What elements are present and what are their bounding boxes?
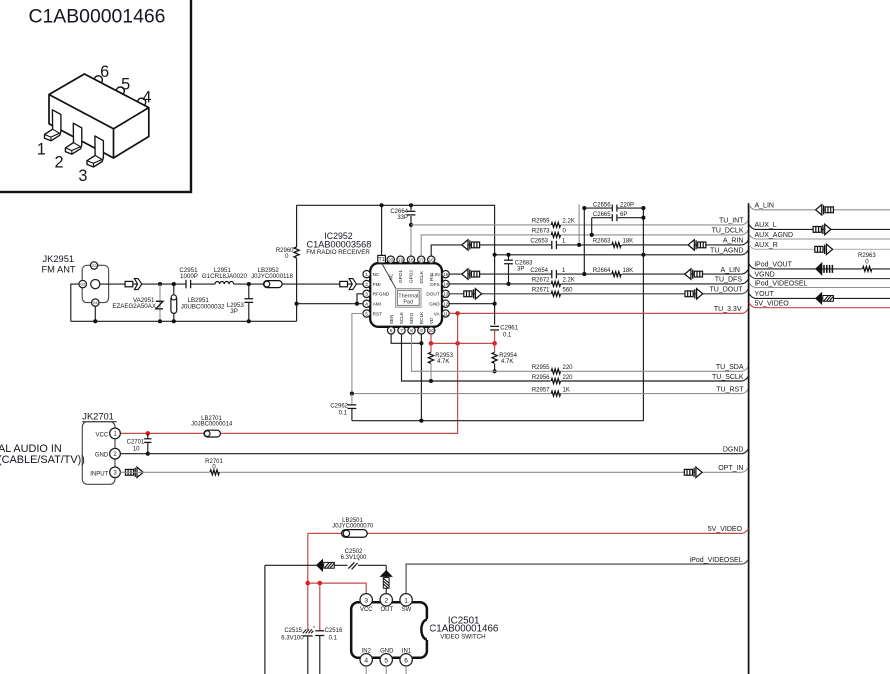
flag on INPUT of JK2701 [125, 467, 143, 477]
svg-text:JK2701: JK2701 [82, 412, 114, 422]
wire pin 4 stub [365, 666, 367, 674]
flag on TU_DOUT row (right) [685, 289, 703, 299]
svg-text:Thermal: Thermal [398, 294, 418, 300]
node C2665 bottom junction on TU_DCLK row [590, 233, 594, 237]
svg-text:R2959: R2959 [532, 219, 550, 225]
node RCLK junction on AGND row [419, 419, 423, 423]
svg-text:GND: GND [380, 648, 394, 654]
flag on A_RIN row (left) [462, 240, 480, 250]
wire C2656 left vertical to A_LIN row [583, 208, 585, 274]
wire pin 8 SDIO / TU_SDA row [412, 334, 742, 371]
node pin12 junction [493, 302, 497, 306]
svg-text:TU_RST: TU_RST [716, 386, 744, 393]
node LB2951 top junction [172, 282, 176, 286]
wire pin 14 / TU_DFS row [449, 283, 742, 285]
svg-text:SCLK: SCLK [399, 311, 404, 324]
svg-text:5: 5 [384, 657, 388, 664]
wire T1 to thermal pad [382, 263, 397, 290]
svg-text:19: 19 [398, 257, 404, 262]
wire AUX_R row [749, 244, 890, 249]
wire 5V_VIDEO left row (red) [308, 532, 742, 534]
pin G1 [92, 299, 99, 306]
node gray stub junction on A_RIN row [577, 243, 581, 247]
flag on C2502 row [317, 560, 335, 571]
svg-text:(CABLE/SAT/TV)): (CABLE/SAT/TV)) [0, 454, 85, 466]
wire pin 10 VD stem (red) [430, 334, 432, 343]
ferrite bead LB2952 [264, 281, 283, 288]
svg-text:OPT_IN: OPT_IN [718, 465, 743, 472]
svg-text:5V_VIDEO: 5V_VIDEO [755, 301, 790, 308]
wire A_LIN right row [749, 205, 890, 210]
svg-text:9: 9 [420, 328, 423, 333]
svg-text:TU_DFS: TU_DFS [715, 277, 743, 284]
svg-text:A_LIN: A_LIN [721, 267, 740, 274]
wire pin 9 RCLK vertical [420, 334, 422, 421]
wire SW pin / iPod_VIDEOSEL left row [406, 564, 742, 594]
flag on A_LIN row (left) [462, 269, 480, 279]
node C2701 bottom junction on GND row [146, 452, 150, 456]
svg-text:OUT: OUT [380, 607, 393, 613]
pin 4 of IC2501 [360, 654, 372, 666]
capacitor C2664 [407, 205, 416, 225]
svg-text:18: 18 [408, 257, 414, 262]
pin 4 [363, 300, 370, 307]
svg-text:220: 220 [563, 365, 574, 371]
pin 19 [397, 256, 404, 263]
svg-text:2: 2 [384, 597, 388, 604]
svg-text:VCC: VCC [96, 432, 109, 438]
wire red VCC rail to IC2501 [308, 583, 366, 594]
pin 2 of JK2701 [110, 448, 121, 459]
pin 6 of IC2501 [400, 654, 412, 666]
node L2953 top junction [247, 282, 251, 286]
pin 1 of JK2701 [110, 428, 121, 439]
svg-text:2: 2 [365, 282, 368, 287]
wire pin 6 stub [405, 666, 407, 674]
svg-text:AUX_L: AUX_L [755, 222, 777, 229]
svg-text:A_LIN: A_LIN [755, 203, 774, 210]
svg-text:0.1: 0.1 [503, 333, 512, 339]
svg-text:5V_VIDEO: 5V_VIDEO [708, 526, 743, 533]
pin G3 [90, 262, 97, 269]
flag on iPod_VOUT row [816, 263, 833, 275]
svg-text:R2963: R2963 [858, 253, 876, 259]
svg-text:RST: RST [373, 311, 383, 316]
resistor R2954 [492, 343, 497, 371]
flag on A_LIN right row [816, 205, 834, 215]
wire DGND row [120, 453, 742, 455]
svg-text:G1CR18JA0020: G1CR18JA0020 [202, 273, 248, 280]
wire gray stub vertical to A_RIN row [578, 204, 580, 245]
svg-text:G2: G2 [80, 282, 85, 287]
capacitor C2653 [552, 241, 557, 249]
node red rail right junction [492, 341, 497, 346]
svg-text:R2671: R2671 [532, 288, 550, 294]
svg-text:1K: 1K [563, 387, 570, 393]
signal direction marker on antenna line [125, 279, 142, 290]
flag on AUX_R row [815, 244, 833, 254]
pin 3 of JK2701 [110, 467, 121, 478]
node red rail mid junction [455, 341, 460, 346]
svg-text:AUX_R: AUX_R [755, 242, 778, 249]
node red rail left junction [429, 341, 434, 346]
svg-text:5: 5 [121, 76, 130, 94]
svg-text:0.1: 0.1 [339, 410, 348, 416]
svg-text:6: 6 [404, 657, 408, 664]
varistor VA2951 [156, 284, 163, 321]
svg-text:560: 560 [563, 288, 574, 294]
svg-text:G3: G3 [91, 263, 96, 268]
node TU_RST start junction [350, 392, 354, 396]
svg-text:17: 17 [419, 257, 425, 262]
svg-text:7: 7 [400, 328, 403, 333]
node red junction C2516 [318, 581, 323, 586]
svg-text:TU_AGND: TU_AGND [710, 248, 743, 255]
svg-text:C2653: C2653 [530, 239, 548, 245]
package pin 5 bump [116, 87, 124, 95]
node R2953 bottom junction on TU_SCLK [429, 379, 433, 383]
wire pin 18 stem [410, 225, 412, 256]
pin 17 [418, 256, 425, 263]
node RFGND/AMI junction [355, 302, 359, 306]
flag on OPT_IN row (right) [684, 467, 702, 477]
svg-text:4.7K: 4.7K [437, 359, 449, 365]
node C2656 left junction [582, 206, 586, 210]
node pin 11 junction (red) [455, 311, 460, 316]
svg-text:SW: SW [402, 607, 412, 613]
signal direction marker before pin FMI [340, 279, 357, 290]
svg-text:SDIO: SDIO [409, 312, 414, 324]
wire FM antenna signal line [100, 283, 363, 285]
svg-text:J0JBC0000014: J0JBC0000014 [191, 422, 233, 428]
svg-text:FMI: FMI [373, 282, 381, 287]
svg-text:2: 2 [54, 153, 63, 171]
node SEN/RCLK junction [419, 341, 423, 345]
wire T1 pad stem to top rail [381, 205, 383, 255]
wire C2502 row [265, 565, 386, 674]
svg-text:8: 8 [410, 328, 413, 333]
wire G1 stem [94, 306, 96, 321]
svg-text:6: 6 [390, 328, 393, 333]
svg-text:10: 10 [133, 446, 140, 452]
wire red rail 3.3V [431, 342, 495, 344]
flag on AUX_L row [813, 224, 831, 234]
svg-text:J0JYC0000070: J0JYC0000070 [332, 524, 374, 530]
pin 1 of IC2501 [400, 594, 412, 606]
wire iPod_VOUT row [749, 264, 890, 269]
svg-text:13: 13 [443, 292, 449, 297]
switch IC2501 body [351, 602, 427, 658]
resistor R2701 [209, 468, 219, 476]
resistor R2959 [551, 221, 561, 229]
capacitor C2516 [315, 631, 324, 674]
wire OPT_IN row [120, 471, 742, 473]
svg-text:R2955: R2955 [532, 365, 550, 371]
bus line (vertical page bus) [748, 203, 750, 674]
svg-text:2.2K: 2.2K [563, 278, 575, 284]
pin 9 [418, 327, 425, 334]
capacitor C2656 [584, 205, 643, 212]
node LB2951 bottom junction [172, 319, 176, 323]
pin 14 [442, 280, 449, 287]
resistor R2672 [551, 280, 561, 288]
capacitor C2502 (polarized, diagonal) [348, 559, 360, 570]
svg-text:18K: 18K [623, 239, 634, 245]
svg-text:1: 1 [365, 272, 368, 277]
flag on TU_DOUT row (left) [464, 289, 482, 299]
flag on YOUT row [816, 293, 834, 304]
flag on A_RIN row (right) [688, 240, 706, 250]
ferrite bead LB2701 [204, 430, 220, 437]
wire iPod_VIDEOSEL right row [749, 283, 890, 288]
svg-text:A_RIN: A_RIN [723, 238, 744, 245]
capacitor C2515 (polarized) [303, 626, 315, 674]
node T1 junction on top rail [380, 203, 384, 207]
capacitor C2683 [504, 255, 513, 284]
wire pin 12 to AGND vertical [449, 303, 494, 305]
capacitor C2951 [186, 280, 191, 288]
node C2664 junction on top rail [409, 203, 413, 207]
svg-text:3P: 3P [230, 308, 238, 315]
capacitor C2962 [348, 394, 357, 421]
pin G2 [79, 280, 86, 287]
svg-text:TU_DCLK: TU_DCLK [712, 228, 744, 235]
resistor R2673 [551, 231, 561, 239]
svg-text:C2701: C2701 [127, 439, 145, 445]
node C2665 right junction [641, 216, 645, 220]
svg-text:R2956: R2956 [532, 375, 550, 381]
svg-text:4: 4 [365, 302, 368, 307]
svg-text:Pad: Pad [403, 300, 413, 306]
svg-text:VCC: VCC [360, 607, 373, 613]
pin 15 [442, 270, 449, 277]
svg-text:DGND: DGND [723, 447, 744, 454]
svg-text:SEN: SEN [389, 315, 394, 325]
wire pin 6 SEN jog [391, 334, 421, 343]
svg-text:15: 15 [443, 272, 449, 277]
package pin 6 bump [94, 76, 102, 84]
pin 16 [428, 256, 435, 263]
pin 3 [363, 290, 370, 297]
svg-text:C2656: C2656 [593, 202, 611, 208]
svg-text:14: 14 [443, 282, 449, 287]
resistor R2956 [551, 377, 561, 385]
pin 10 [428, 327, 435, 334]
svg-text:*: * [313, 626, 315, 632]
pin 3 of IC2501 [360, 594, 372, 606]
svg-text:VGND: VGND [755, 271, 775, 278]
svg-text:EZAEG2A50AX: EZAEG2A50AX [112, 303, 156, 310]
svg-text:11: 11 [443, 311, 448, 316]
svg-text:DCLK: DCLK [419, 270, 424, 283]
pad T1 [378, 255, 386, 263]
svg-text:4: 4 [142, 89, 151, 107]
svg-text:6.3V1000: 6.3V1000 [341, 555, 367, 561]
svg-text:R2957: R2957 [532, 387, 550, 393]
pin 5 [363, 310, 370, 317]
svg-text:IN1: IN1 [402, 648, 412, 654]
wire TU_AGND row [495, 254, 742, 256]
node red junction C2515 [306, 581, 311, 586]
svg-text:NC: NC [388, 273, 393, 280]
wire TU_RST row [352, 393, 742, 395]
node AMI junction on R2960 line [295, 302, 299, 306]
svg-text:RCLK: RCLK [419, 311, 424, 324]
svg-text:RIN: RIN [429, 273, 434, 281]
pin 2 of IC2501 [380, 594, 392, 606]
svg-text:3P: 3P [517, 266, 524, 272]
svg-text:18K: 18K [623, 268, 634, 274]
wire 5V_VIDEO right row (red) [749, 303, 890, 308]
svg-text:VA: VA [434, 311, 441, 316]
package body (SOT-23-6 isometric view) [49, 74, 149, 158]
svg-text:AMI: AMI [373, 302, 381, 307]
resistor R2955 [551, 367, 561, 375]
wire pin 16 stem / A_RIN row [431, 245, 742, 256]
node C2656 right junction [641, 206, 645, 210]
node AGND vertical junction [641, 253, 645, 257]
wire red stub to C2516 [319, 583, 321, 631]
svg-text:R2960: R2960 [276, 248, 294, 254]
wire red drop to JK2701 VCC [120, 313, 457, 433]
connector JK2951 body [82, 265, 108, 302]
svg-text:10: 10 [429, 328, 435, 333]
svg-text:0.1: 0.1 [329, 635, 338, 641]
svg-text:GND: GND [95, 453, 109, 459]
svg-text:6.3V100: 6.3V100 [281, 635, 304, 641]
svg-text:C2962: C2962 [330, 404, 348, 410]
wire OUT pin vertical [385, 565, 387, 593]
node VA2951 bottom junction [158, 319, 162, 323]
wire pin 3 RFGND jog [357, 294, 363, 304]
svg-text:2.2K: 2.2K [563, 219, 575, 225]
wire pin 4 AMI to R2960 line [297, 303, 363, 305]
package lead 1 [45, 110, 61, 141]
capacitor C2701 [144, 433, 151, 453]
node G1 junction on rail [93, 319, 97, 323]
node VA2951 top junction [158, 282, 162, 286]
svg-text:R2663: R2663 [593, 239, 611, 245]
wire pin 11 / TU_3.3V row (red) [449, 312, 742, 314]
wire pin 7 SCLK / TU_SCLK row [402, 334, 742, 381]
node TU_AGND start junction [493, 253, 497, 257]
svg-text:FM RADIO RECEIVER: FM RADIO RECEIVER [306, 249, 370, 256]
svg-text:220: 220 [563, 375, 574, 381]
connector JK2701 body [82, 422, 115, 485]
svg-text:1000P: 1000P [180, 273, 198, 280]
flag up on OUT net [381, 571, 392, 589]
resistor R2663 [612, 241, 622, 249]
svg-text:C2961: C2961 [500, 325, 518, 331]
wire red drop from 5V_VIDEO to VCC rail [307, 533, 309, 630]
svg-text:TU_SCLK: TU_SCLK [712, 374, 744, 381]
node TU_INT tap junction [409, 223, 413, 227]
pin 6 [387, 327, 394, 334]
svg-text:R2673: R2673 [532, 229, 550, 235]
svg-text:iPod_VIDEOSEL: iPod_VIDEOSEL [690, 557, 743, 564]
svg-text:G1: G1 [93, 300, 98, 305]
wire pin 15 / A_LIN row [449, 273, 742, 275]
wire pin 5 RST vertical [352, 314, 363, 394]
svg-text:TU_SDA: TU_SDA [716, 364, 744, 371]
svg-text:R2672: R2672 [532, 278, 550, 284]
resistor R2960 [294, 205, 299, 321]
pin 18 [407, 256, 414, 263]
svg-text:C2654: C2654 [530, 268, 548, 274]
svg-text:4: 4 [364, 657, 368, 664]
svg-text:RFGND: RFGND [373, 292, 390, 297]
svg-text:T1: T1 [379, 257, 385, 263]
svg-text:TU_3.3V: TU_3.3V [714, 306, 742, 313]
svg-text:VD: VD [429, 317, 434, 324]
pin 13 [442, 290, 449, 297]
ferrite bead LB2951 [171, 284, 177, 321]
svg-text:DFS: DFS [430, 282, 439, 287]
svg-text:33P: 33P [397, 215, 408, 221]
svg-text:C2665: C2665 [593, 212, 611, 218]
svg-text:4.7K: 4.7K [501, 359, 513, 365]
pin 11 [442, 310, 449, 317]
node R2954 bottom junction on TU_SDA [493, 369, 497, 373]
wire AGND bottom row [352, 420, 644, 422]
resistor R2664 [612, 270, 622, 278]
svg-text:J0UBC0000032: J0UBC0000032 [181, 304, 225, 311]
wire pin 17 stem / TU_DCLK row [421, 235, 742, 256]
resistor R2963 [862, 265, 872, 273]
wire VGND row [749, 274, 890, 279]
svg-text:J0JYC0000118: J0JYC0000118 [251, 273, 293, 280]
svg-text:FM ANT: FM ANT [42, 264, 76, 274]
svg-text:6P: 6P [620, 212, 627, 218]
capacitor C2654 [552, 270, 557, 278]
node C2683 bottom junction on DFS row [506, 282, 510, 286]
pin 2 [363, 280, 370, 287]
pin 1 [363, 270, 370, 277]
svg-text:AUX_AGND: AUX_AGND [755, 232, 794, 239]
pin 5 of IC2501 [380, 654, 392, 666]
notch on IC2501 right edge [421, 619, 430, 640]
pin 12 [442, 300, 449, 307]
svg-text:16: 16 [429, 257, 435, 262]
wire AGND vertical x=643 [642, 208, 644, 421]
svg-text:3: 3 [78, 167, 87, 185]
wire pin 5 stub [385, 666, 387, 674]
node C2683 junction [506, 253, 510, 257]
svg-text:TU_INT: TU_INT [719, 218, 744, 225]
thermal pad box [396, 289, 421, 308]
ground rail (FM ANT section) [71, 320, 297, 322]
capacitor C2961 [490, 326, 499, 343]
svg-text:R2664: R2664 [593, 268, 611, 274]
op-amp IC2952 body [370, 263, 442, 327]
wire pin 13 / TU_DOUT row [449, 293, 742, 295]
pin 20 [387, 256, 394, 263]
resistor R2957 [551, 390, 561, 398]
node L2953 bottom junction [247, 319, 251, 323]
svg-text:C2516: C2516 [325, 628, 343, 634]
package drawing frame box [0, 0, 191, 192]
svg-text:3: 3 [365, 292, 368, 297]
center contact of JK2951 [91, 280, 100, 289]
svg-text:C2515: C2515 [284, 628, 302, 634]
svg-text:iPod_VOUT: iPod_VOUT [755, 262, 793, 269]
pin 8 [408, 327, 415, 334]
wire YOUT row [749, 293, 890, 298]
svg-text:JK2951: JK2951 [43, 254, 75, 264]
package lead 2 [65, 123, 81, 154]
flag on A_LIN row (right) [685, 269, 703, 279]
resistor R2671 [551, 290, 561, 298]
